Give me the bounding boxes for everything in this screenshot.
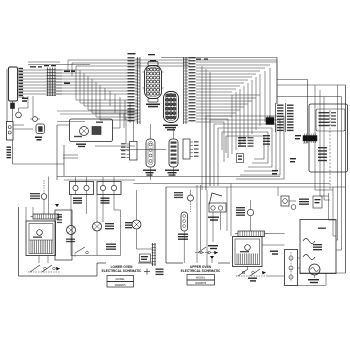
connector CN1 main harness (pin face view) <box>143 62 164 103</box>
label convection element <box>308 279 319 283</box>
label latch upper <box>248 278 257 282</box>
connector strip CN2 (hatched) <box>44 65 56 96</box>
label K1 <box>35 137 42 141</box>
wire drops from upper bundle <box>202 62 277 190</box>
terminal list TB2 <box>286 103 294 132</box>
oven sensor (upper) <box>169 128 178 176</box>
labels above connector CN1 <box>128 53 157 61</box>
wire loop 6 <box>206 116 284 190</box>
label sensor upper <box>178 234 188 240</box>
upper door switch components <box>195 247 218 255</box>
lock assembly box (upper) <box>285 250 298 286</box>
bake/broil element box (upper) <box>300 220 336 274</box>
boundary rails upper <box>197 185 207 265</box>
lower oven section boundary <box>19 207 153 276</box>
connector blob CN6 <box>266 116 274 125</box>
wire branch <box>277 97 342 251</box>
connector pins P3 (black strip) <box>295 134 317 144</box>
wire top-left stub <box>28 62 90 65</box>
wire loop 3 <box>218 128 272 186</box>
latch switch lower <box>75 247 88 257</box>
ground label box <box>140 254 151 262</box>
wires transformer to elements <box>248 234 301 277</box>
terminal block TB upper (hatched bar) <box>235 231 268 237</box>
text right of loops <box>272 158 296 174</box>
component small block <box>237 154 244 163</box>
wire loop 5 <box>226 136 264 159</box>
door switches bottom upper <box>236 269 266 276</box>
convection element (upper) <box>309 264 320 278</box>
right bus wires <box>300 187 346 273</box>
label ground strap <box>156 269 164 276</box>
wires lower-left risers <box>26 207 48 263</box>
svg-text:ELECTRICAL SCHEMATIC: ELECTRICAL SCHEMATIC <box>102 269 142 273</box>
label right of T2 <box>270 251 278 255</box>
wire to clock <box>277 80 308 136</box>
wire bundle upper oven harness <box>196 62 277 122</box>
connector CN4 small <box>121 142 137 161</box>
component box left rail <box>55 210 72 260</box>
svg-text:MODEL: MODEL <box>116 277 126 281</box>
label K2 <box>73 198 82 204</box>
wires relay drops lower <box>87 195 121 223</box>
door lock motor (upper) <box>247 200 253 231</box>
wire to right edge <box>277 85 346 273</box>
right bus rail group <box>320 90 330 200</box>
wire bundle from P1 <box>24 70 62 94</box>
label oven sensor lower <box>143 170 156 176</box>
label CN3 <box>163 125 178 131</box>
svg-text:MGR6875: MGR6875 <box>115 284 127 287</box>
wire rail L2 <box>134 183 331 185</box>
connector CN5 small <box>183 139 199 159</box>
thermal breaker circle <box>16 96 33 118</box>
wire from fuse down <box>13 140 65 164</box>
wire riser x57 <box>56 125 58 180</box>
label door lock motor <box>76 144 86 148</box>
svg-text:MODEL: MODEL <box>196 276 206 280</box>
label oven sensor upper <box>165 170 179 176</box>
fan motor M3 (lower) <box>132 190 153 249</box>
door switch (lower) <box>30 180 47 214</box>
wire rail N <box>64 179 135 181</box>
wire loop 2 <box>214 124 276 186</box>
wire loop 1 <box>210 120 280 186</box>
oven light circuit (upper) <box>278 187 322 209</box>
bake element motor M1 (lower) <box>66 195 76 256</box>
dashed chassis line <box>329 110 331 190</box>
clock/control module (upper right) <box>309 104 348 172</box>
upper section inner verticals <box>227 184 231 237</box>
broil element motor M2 (lower) <box>93 195 102 256</box>
label below bundle left <box>22 98 28 102</box>
relay box K3 (lower) <box>97 177 121 195</box>
title UPPER OVEN ELECTRICAL SCHEMATIC <box>181 265 221 273</box>
fuse F1 / filter <box>7 122 34 141</box>
wire mesh middle verticals <box>124 113 134 144</box>
clock text block 2 <box>318 147 327 161</box>
label specks top strip area <box>196 59 208 60</box>
wire rail L1 <box>57 176 280 178</box>
mesh extension left <box>57 111 138 122</box>
wire vertical rail right <box>276 58 278 105</box>
svg-text:ELECTRICAL SCHEMATIC: ELECTRICAL SCHEMATIC <box>181 269 221 273</box>
oven sensor (lower) <box>146 124 155 180</box>
ground symbol mark <box>144 269 150 275</box>
wire loop 4 <box>222 132 268 163</box>
wire N top rail <box>196 59 277 61</box>
wire mesh lower-left harness <box>56 60 190 123</box>
arrow junction upper <box>210 256 214 263</box>
lock motor text upper <box>236 207 245 216</box>
wire code list (upper oven, right column) <box>184 57 196 124</box>
wire code list (lower oven, left column) <box>128 57 141 124</box>
label block left edge <box>7 147 12 159</box>
wire riser x64 <box>63 145 65 176</box>
label door lock relay <box>208 217 219 221</box>
label cluster mid lower <box>105 222 132 250</box>
label K3 <box>101 198 110 204</box>
wire bottom rail lower <box>71 210 121 256</box>
wire labels on bundle <box>30 66 75 84</box>
door switches bottom lower <box>28 265 60 272</box>
terminal block TB lower (hatched bar) <box>31 214 63 219</box>
bus corner wires <box>303 135 333 190</box>
terminal rail right of lower section (hatched) <box>152 243 157 266</box>
transformer T1 lower (convection fan motor) <box>26 221 56 256</box>
relay box K2 (lower) <box>70 177 94 195</box>
wire mid horizontals <box>63 146 166 158</box>
connector CN3 (pin face view) <box>164 92 179 123</box>
upper oven section boundary <box>166 187 230 263</box>
text cluster relay board <box>238 135 270 147</box>
title LOWER OVEN ELECTRICAL SCHEMATIC <box>102 265 142 273</box>
terminal list TB1 <box>276 103 284 132</box>
label TOD <box>208 245 218 249</box>
sensor strip upper <box>181 212 188 263</box>
wire rail upper N <box>166 186 346 188</box>
wire L1 top rail <box>161 57 277 59</box>
wire riser <box>48 177 50 215</box>
model number box lower <box>107 276 134 288</box>
wire branch 2 <box>315 85 338 240</box>
svg-text:MGR6875: MGR6875 <box>195 282 207 285</box>
relay K1 coil <box>36 124 45 134</box>
arrow junction <box>55 204 59 207</box>
fuse below P1 <box>11 101 15 122</box>
transformer T2 upper (convection fan) <box>233 237 263 267</box>
door switch (upper) <box>174 190 194 212</box>
model number box upper <box>187 275 215 286</box>
indicator neon L1 <box>30 117 40 122</box>
door lock motor DLM (lower) <box>57 113 120 142</box>
door lock relay (upper) <box>209 193 226 242</box>
connector P1 oven control board (lower) <box>7 67 24 122</box>
label MAIN HARNESS CONN <box>146 104 160 108</box>
right bus lower rails <box>298 85 338 286</box>
